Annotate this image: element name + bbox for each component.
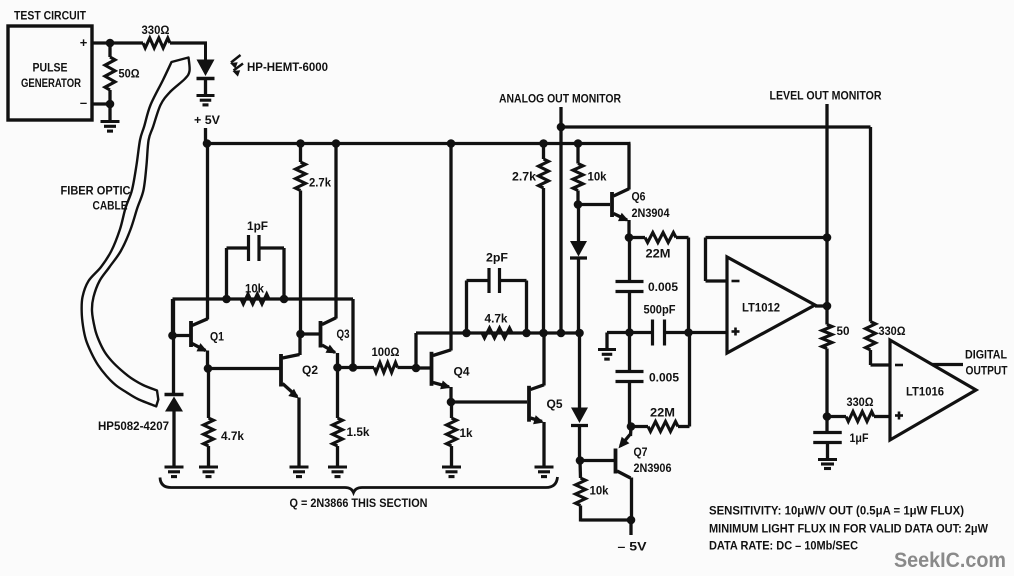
resistor 10k-1	[241, 294, 269, 304]
wire LT1012 minus input	[706, 279, 728, 282]
junction Q1 base	[168, 331, 177, 340]
transistor Q6	[612, 189, 670, 221]
svg-text:OUTPUT: OUTPUT	[966, 366, 1008, 378]
wire 4.7k-2 left leg	[414, 333, 417, 368]
svg-text:HP5082-4207: HP5082-4207	[98, 421, 169, 433]
svg-text:CABLE: CABLE	[93, 201, 128, 213]
svg-text:MINIMUM LIGHT FLUX IN FOR VALI: MINIMUM LIGHT FLUX IN FOR VALID DATA OUT…	[709, 524, 988, 536]
resistor 330ohm label	[142, 25, 170, 37]
resistor 22M-2	[631, 422, 690, 432]
capacitor 2pF	[467, 268, 527, 333]
junction Q3 base	[296, 330, 305, 339]
label HP5082-4207	[98, 421, 169, 433]
svg-text:10k: 10k	[245, 284, 265, 296]
wire Q4 emitter to Q5 base	[451, 400, 527, 403]
ground below 1.5k	[328, 467, 347, 477]
wire Q4 emitter	[449, 387, 452, 402]
transistor Q7	[616, 435, 672, 479]
fiber optic cable	[82, 58, 190, 407]
junction Q4 base	[412, 364, 421, 373]
wire pulse generator - output	[92, 102, 110, 105]
rail junction Q4	[447, 139, 456, 148]
svg-text:PULSE: PULSE	[33, 63, 68, 75]
capacitor 500pF	[630, 320, 728, 346]
wire analog monitor vertical	[559, 107, 562, 333]
ground below 1uF	[818, 460, 837, 469]
wire Q2 collector	[298, 334, 301, 355]
svg-text:DIGITAL: DIGITAL	[965, 350, 1007, 362]
svg-text:– 5V: – 5V	[618, 542, 647, 554]
ground below Q2	[290, 467, 309, 477]
junction Q1 emitter node	[204, 364, 213, 373]
junction 2pF right	[522, 329, 531, 338]
svg-text:–: –	[80, 95, 87, 110]
junction feedback level	[823, 233, 832, 242]
wire Q2 emitter	[297, 398, 300, 468]
label -5V	[618, 542, 647, 554]
junction output diode line	[575, 329, 584, 338]
LED HP-HEMT-6000	[197, 60, 215, 96]
svg-text:50: 50	[837, 326, 850, 338]
label 50	[837, 326, 850, 338]
label 22M-1	[646, 249, 671, 261]
svg-text:22M: 22M	[650, 408, 675, 420]
wire Q4 collector	[449, 144, 452, 351]
resistor 1.5k	[333, 368, 343, 468]
wire monitor cross line	[561, 125, 871, 128]
label 2.7k-1	[309, 178, 332, 190]
svg-text:4.7k: 4.7k	[221, 431, 245, 443]
svg-text:330Ω: 330Ω	[879, 326, 906, 338]
label 1uF	[850, 433, 869, 445]
wire 4.7k-2 line	[416, 331, 580, 334]
svg-text:+ 5V: + 5V	[194, 115, 220, 127]
label 10k-2	[588, 172, 608, 184]
label 1pF	[247, 221, 268, 233]
svg-text:Q3: Q3	[337, 329, 350, 341]
resistor 4.7k-1	[204, 369, 214, 468]
wire pulse generator + output	[92, 41, 143, 44]
transistor Q5	[529, 385, 563, 424]
label 10k-1	[245, 284, 265, 296]
diode clamp upper	[570, 205, 587, 334]
resistor 2.7k-2	[539, 144, 549, 334]
wire Q7 collector	[630, 478, 633, 521]
label 0.005 upper	[648, 282, 679, 294]
junction 2pF left	[462, 329, 471, 338]
svg-text:1μF: 1μF	[850, 433, 869, 445]
label HP-HEMT-6000	[247, 62, 328, 74]
rail junction 2.7k-1	[296, 139, 305, 148]
wire feedback right corner	[351, 299, 354, 368]
junction Q6 base node	[574, 200, 583, 209]
svg-text:1pF: 1pF	[247, 221, 268, 233]
note sensitivity	[709, 506, 964, 518]
junction Q6 emitter node	[625, 233, 634, 242]
junction plus input node	[684, 328, 693, 337]
rail junction Q3	[332, 139, 341, 148]
wire 10k feedback line	[173, 297, 354, 300]
op-amp LT1012	[727, 257, 815, 353]
junction -5V	[627, 516, 636, 525]
wire LT1012 feedback	[706, 238, 828, 282]
label LEVEL OUT MONITOR	[770, 91, 883, 103]
ground below 1k	[442, 467, 461, 477]
svg-text:2.7k: 2.7k	[512, 172, 537, 184]
wire level monitor vertical	[825, 104, 828, 306]
resistor 50&#937; label	[119, 69, 140, 81]
resistor 1k	[447, 402, 457, 467]
resistor 50	[822, 306, 832, 417]
resistor 100ohm	[374, 363, 416, 373]
rail junction 10k-2	[574, 139, 583, 148]
svg-text:HP-HEMT-6000: HP-HEMT-6000	[247, 62, 328, 74]
svg-text:DATA RATE: DC – 10Mb/SEC: DATA RATE: DC – 10Mb/SEC	[709, 541, 858, 553]
wire LT1016 output	[932, 363, 963, 366]
wire Q7 base	[580, 459, 614, 462]
junction analog monitor	[557, 123, 566, 132]
junction 1pF right	[280, 295, 289, 304]
junction Q4 emitter node	[447, 398, 456, 407]
wire Q7 emitter	[629, 427, 633, 437]
resistor 330ohm-v	[866, 127, 876, 365]
svg-text:100Ω: 100Ω	[372, 347, 400, 359]
wire Q1 collector	[206, 144, 209, 320]
svg-text:0.005: 0.005	[649, 373, 680, 385]
capacitor 1uF	[813, 417, 842, 460]
svg-text:50Ω: 50Ω	[119, 69, 140, 81]
ground below LED	[197, 96, 215, 105]
svg-text:GENERATOR: GENERATOR	[21, 78, 82, 90]
label 10k-3	[590, 486, 610, 498]
ground below 50ohm	[101, 104, 120, 131]
svg-text:2N3904: 2N3904	[632, 208, 671, 220]
junction feedback tap	[349, 363, 358, 372]
label 2.7k-2	[512, 172, 537, 184]
junction 1pF left	[222, 295, 231, 304]
wire Q1 emitter	[206, 351, 209, 369]
svg-text:Q4: Q4	[454, 367, 471, 379]
svg-text:330Ω: 330Ω	[847, 397, 874, 409]
junction output monitor tap	[557, 329, 566, 338]
svg-text:4.7k: 4.7k	[485, 314, 509, 326]
wire Q6 emitter	[627, 220, 630, 238]
wire Q3 collector	[334, 144, 337, 319]
svg-text:TEST CIRCUIT: TEST CIRCUIT	[14, 11, 86, 23]
wire LT1012 output	[815, 304, 827, 307]
svg-text:2N3906: 2N3906	[634, 463, 672, 475]
svg-text:10k: 10k	[588, 172, 608, 184]
wire -5V line	[581, 518, 632, 521]
wire LED anode	[204, 42, 207, 61]
label 4.7k-2	[485, 314, 509, 326]
capacitor 0.005 lower	[616, 333, 644, 427]
svg-text:SENSITIVITY: 10μW/V OUT (0.5μA: SENSITIVITY: 10μW/V OUT (0.5μA = 1μW FLU…	[709, 506, 964, 518]
label 330ohm-v	[879, 326, 906, 338]
label 0.005 lower	[649, 373, 680, 385]
svg-text:22M: 22M	[646, 249, 671, 261]
label 330ohm-h	[847, 397, 874, 409]
svg-text:0.005: 0.005	[648, 282, 679, 294]
svg-text:LEVEL OUT MONITOR: LEVEL OUT MONITOR	[770, 91, 883, 103]
node B junction	[106, 100, 115, 109]
junction output 2.7k	[539, 329, 548, 338]
label 4.7k-1	[221, 431, 245, 443]
resistor 10k-3	[576, 461, 586, 522]
svg-text:Q1: Q1	[210, 332, 225, 344]
rail junction Q1	[203, 139, 212, 148]
svg-text:Q5: Q5	[547, 399, 564, 411]
transistor Q2	[281, 354, 318, 399]
svg-text:1k: 1k	[460, 428, 474, 440]
label Q=2N3866	[290, 498, 428, 510]
label 500pF	[644, 305, 676, 317]
node A junction	[106, 39, 115, 48]
ground mid node	[598, 333, 630, 360]
svg-text:LT1012: LT1012	[742, 303, 780, 315]
resistor 4.7k-2	[482, 328, 512, 338]
wire feedback to Q1 base	[171, 299, 174, 336]
resistor 330ohm-h	[827, 412, 890, 422]
capacitor 1pF	[227, 235, 285, 299]
LED light emission arrows	[230, 55, 243, 77]
label 1.5k	[347, 427, 371, 439]
resistor 330ohm series	[143, 38, 207, 48]
resistor 22M-1	[629, 233, 689, 243]
svg-text:Q2: Q2	[302, 365, 318, 377]
ground below Q5	[535, 467, 554, 477]
label FIBER OPTIC CABLE	[61, 186, 131, 213]
svg-text:LT1016: LT1016	[906, 387, 944, 399]
svg-text:FIBER OPTIC: FIBER OPTIC	[61, 186, 131, 198]
wire -5V stub	[629, 520, 632, 535]
wire 22M-1 to plus node	[687, 238, 690, 333]
wire Q5 collector	[542, 333, 545, 386]
junction mid node	[625, 328, 634, 337]
label 22M-2	[650, 408, 675, 420]
wire Q5 emitter	[542, 422, 545, 467]
ground below 4.7k-1	[199, 467, 218, 477]
pulse generator box	[8, 11, 92, 121]
junction LT1012 output	[823, 302, 832, 311]
note data rate	[709, 541, 858, 553]
svg-text:Q6: Q6	[632, 192, 646, 204]
junction Q7 emitter node	[627, 422, 636, 431]
transistor Q4	[432, 350, 471, 390]
label DIGITAL OUTPUT	[965, 350, 1008, 378]
wire +5V stub	[204, 128, 207, 145]
watermark SeekIC.com	[894, 549, 1006, 572]
diode clamp lower	[571, 333, 588, 461]
wire Q3 base	[301, 332, 320, 335]
wire Q6 collector	[629, 144, 631, 190]
note minimum flux	[709, 524, 988, 536]
svg-text:2pF: 2pF	[486, 253, 508, 265]
junction Q7 base node	[576, 456, 585, 465]
svg-text:SeekIC.com: SeekIC.com	[894, 549, 1006, 572]
svg-text:1.5k: 1.5k	[347, 427, 371, 439]
wire Q4 base	[416, 366, 430, 369]
transistor Q1	[173, 319, 225, 352]
svg-text:ANALOG OUT MONITOR: ANALOG OUT MONITOR	[499, 94, 622, 106]
resistor 50ohm	[105, 43, 115, 104]
wire Q3 emitter to 100ohm	[338, 366, 375, 369]
wire Q3 emitter	[336, 353, 339, 368]
svg-text:Q7: Q7	[634, 447, 648, 459]
resistor 2.7k-1	[296, 144, 306, 335]
svg-text:330Ω: 330Ω	[142, 25, 170, 37]
svg-text:500pF: 500pF	[644, 305, 676, 317]
label 100ohm	[372, 347, 400, 359]
op-amp LT1016	[890, 340, 976, 440]
junction Q3 emitter node	[333, 363, 342, 372]
label +5V	[194, 115, 220, 127]
wire 22M-2 to plus node	[688, 333, 691, 427]
rail junction 2.7k-2	[539, 139, 548, 148]
wire to LT1016 minus	[871, 363, 891, 366]
wire +5V rail	[206, 142, 631, 145]
transistor Q3	[321, 318, 350, 354]
svg-text:10k: 10k	[590, 486, 610, 498]
svg-text:+: +	[80, 35, 88, 50]
capacitor 0.005 upper	[616, 238, 644, 333]
brace Q section	[160, 477, 558, 493]
junction 1uF node	[823, 412, 832, 421]
wire Q6 base	[578, 203, 610, 206]
ground below photodiode	[165, 467, 184, 477]
photodiode HP5082-4207	[165, 299, 184, 467]
label ANALOG OUT MONITOR	[499, 94, 622, 106]
wire Q1 emitter to Q2 base	[208, 367, 280, 370]
svg-text:Q = 2N3866 THIS SECTION: Q = 2N3866 THIS SECTION	[290, 498, 428, 510]
label 2pF	[486, 253, 508, 265]
label 1k	[460, 428, 474, 440]
resistor 10k-2	[573, 144, 583, 205]
svg-text:2.7k: 2.7k	[309, 178, 332, 190]
